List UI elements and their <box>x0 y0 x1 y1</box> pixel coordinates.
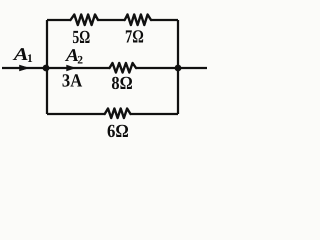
node: right junction dot <box>175 65 182 72</box>
resistor R3 8Ω zigzag <box>110 63 137 73</box>
resistor R4 6Ω zigzag <box>105 109 131 119</box>
svg-text:6Ω: 6Ω <box>107 122 129 142</box>
wire: bottom-left horizontal segment <box>47 113 105 115</box>
wire: middle branch input lead <box>2 67 110 69</box>
resistor R2 7Ω zigzag <box>125 15 151 26</box>
ammeter arrow A2 <box>67 65 76 71</box>
svg-text:1: 1 <box>27 53 33 65</box>
wire: top-left horizontal segment <box>47 19 71 21</box>
svg-text:3A: 3A <box>62 71 83 91</box>
svg-text:2: 2 <box>77 54 83 66</box>
wire: left vertical branch <box>46 20 48 114</box>
wire: right vertical branch <box>177 20 179 114</box>
ammeter arrow A1 <box>20 65 29 71</box>
svg-text:7Ω: 7Ω <box>125 27 144 47</box>
wire: bottom-right horizontal segment <box>131 113 179 115</box>
wire: top middle segment between R1 and R2 <box>98 19 125 21</box>
wire: middle branch output lead <box>136 67 207 69</box>
resistor R1 5Ω zigzag <box>71 15 99 26</box>
svg-text:8Ω: 8Ω <box>111 74 132 94</box>
node: left junction dot <box>43 65 50 72</box>
wire: top-right horizontal segment <box>151 19 178 21</box>
